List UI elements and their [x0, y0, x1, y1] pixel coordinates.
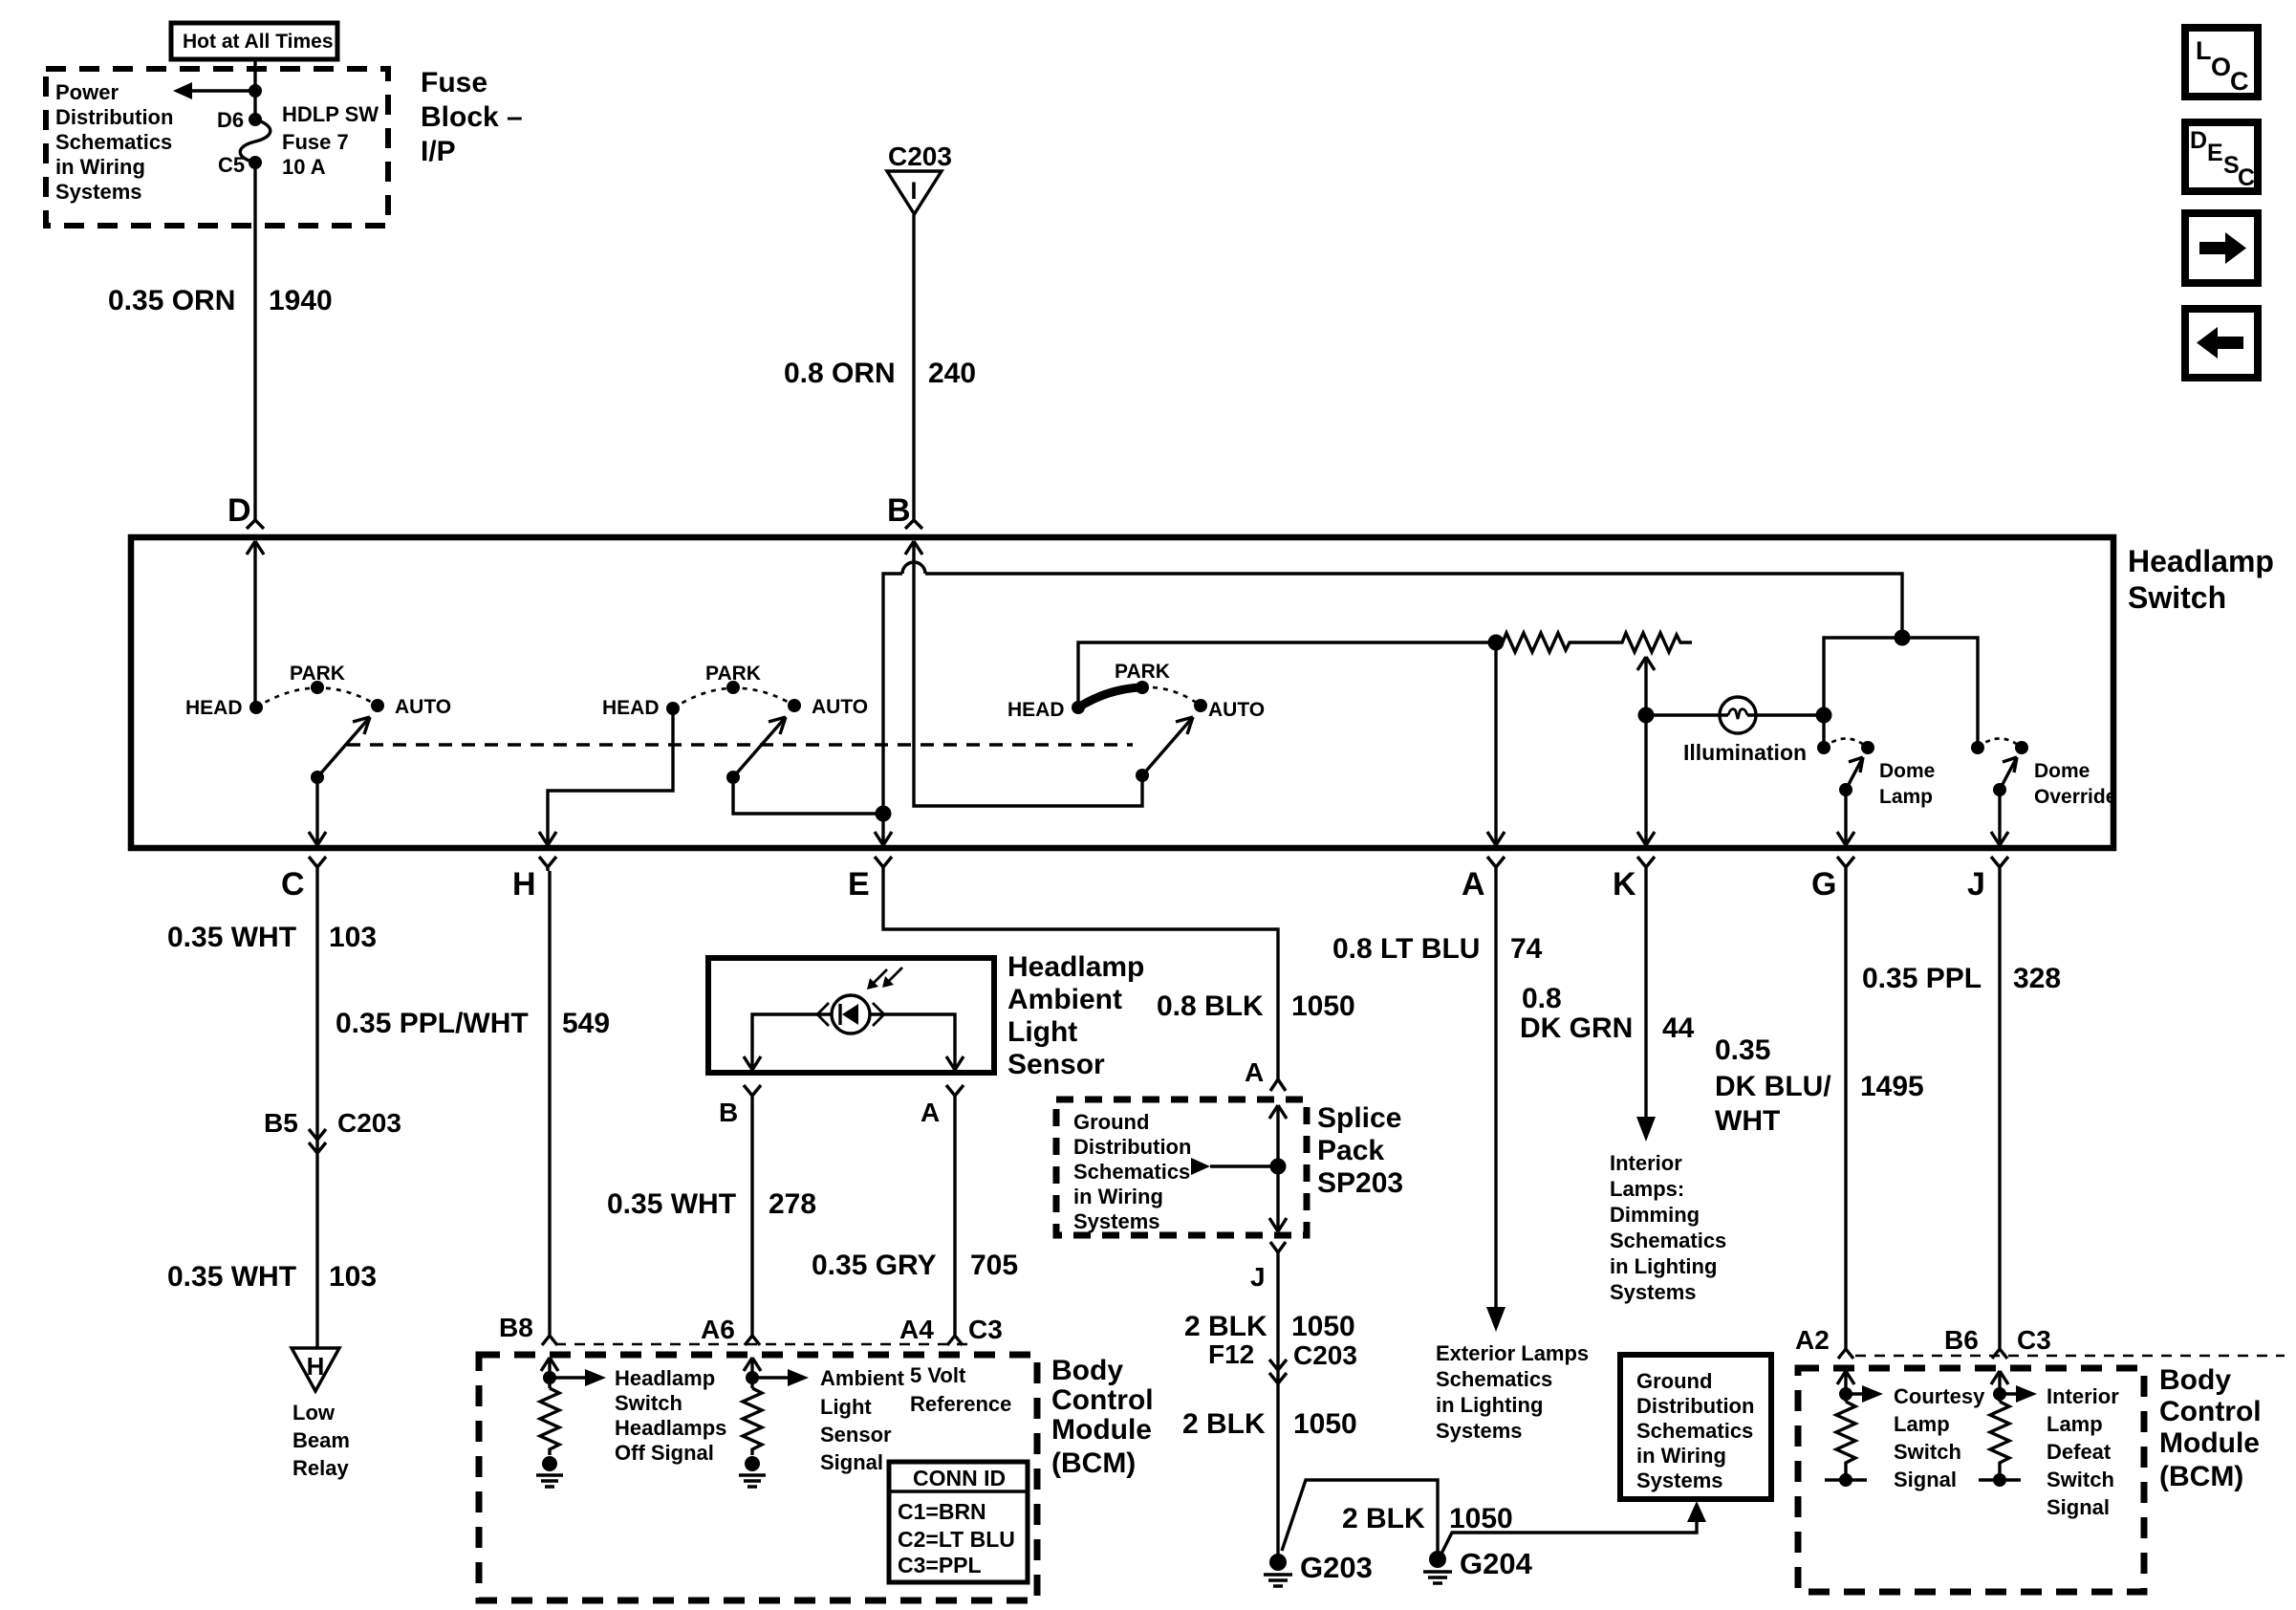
svg-text:C203: C203	[888, 141, 952, 171]
wire label 0.35 WHT 103	[167, 922, 377, 953]
junction node at fuse feed	[249, 84, 262, 98]
svg-text:Lamp: Lamp	[1894, 1412, 1950, 1436]
svg-text:G: G	[1811, 866, 1836, 903]
wire dome feed rail branches	[1824, 638, 1978, 748]
wire from Hot at All Times to fuse	[253, 59, 256, 120]
connector triangle H Low Beam Relay	[292, 1348, 339, 1391]
wire S1 wiper to pin C	[309, 777, 326, 845]
wire splice pack internal	[1269, 1105, 1287, 1231]
BCM connector dashed line left	[555, 1343, 967, 1346]
svg-text:Systems: Systems	[55, 180, 142, 204]
svg-text:HEAD: HEAD	[602, 697, 660, 719]
switch S3 selected segment HEAD-PARK thick arc	[1078, 687, 1140, 707]
svg-text:Hot at All Times: Hot at All Times	[183, 31, 334, 53]
wire pin E to splice pack	[883, 871, 1278, 1079]
svg-text:DK BLU/: DK BLU/	[1715, 1071, 1831, 1102]
pin C5	[218, 153, 262, 177]
resistor dimmer rheostat	[1503, 633, 1692, 652]
svg-text:Fuse 7: Fuse 7	[282, 130, 349, 154]
junction node B6 signal	[1993, 1387, 2006, 1401]
svg-text:103: 103	[329, 1261, 377, 1293]
pin A4	[899, 1315, 963, 1345]
Splice Pack dashed box	[1056, 1099, 1307, 1235]
junction node rheostat feed	[1488, 635, 1505, 651]
svg-text:Distribution: Distribution	[1073, 1135, 1191, 1159]
label Interior Lamp Defeat Switch Signal	[2047, 1384, 2119, 1519]
svg-text:1050: 1050	[1293, 1408, 1357, 1440]
svg-text:Off Signal: Off Signal	[615, 1441, 714, 1465]
svg-text:240: 240	[928, 358, 976, 389]
node G	[1811, 857, 1854, 903]
Fuse Block - I/P dashed box	[46, 69, 388, 226]
svg-text:Schematics: Schematics	[1073, 1160, 1190, 1184]
svg-text:in Wiring: in Wiring	[1636, 1444, 1726, 1468]
switch S2 PARK contact	[705, 663, 761, 694]
svg-text:CONN ID: CONN ID	[913, 1466, 1006, 1490]
wire E node to dome feed rail	[875, 562, 1902, 845]
junction node illumination to dome lamp	[1816, 707, 1832, 724]
switch S3 AUTO contact	[1194, 699, 1265, 721]
switch dome override wiper	[1993, 757, 2017, 796]
ground G203	[1264, 1551, 1373, 1586]
svg-text:Light: Light	[1007, 1016, 1077, 1048]
button LOC	[2185, 28, 2258, 97]
svg-text:0.35 WHT: 0.35 WHT	[607, 1188, 736, 1220]
svg-text:C203: C203	[337, 1108, 401, 1138]
label Dome Override	[2034, 760, 2116, 808]
svg-text:Schematics: Schematics	[1436, 1367, 1552, 1391]
svg-text:J: J	[1967, 866, 1985, 903]
wire label 0.8 LT BLU 74	[1332, 933, 1543, 965]
wire label 0.35 DK BLU/WHT 1495	[1715, 1034, 1924, 1137]
wire illumination lamp to dome lamp switch	[1756, 713, 1824, 716]
svg-text:74: 74	[1510, 933, 1543, 965]
wire label 0.35 GRY 705	[812, 1250, 1018, 1281]
svg-text:Ground: Ground	[1636, 1369, 1712, 1393]
button arrow left	[2185, 309, 2258, 378]
svg-text:A: A	[1245, 1057, 1264, 1087]
svg-text:Headlamp: Headlamp	[2128, 544, 2274, 578]
label Splice Pack SP203	[1317, 1102, 1403, 1199]
junction node A6 signal	[746, 1371, 759, 1384]
svg-text:Module: Module	[1051, 1414, 1152, 1446]
svg-text:Relay: Relay	[292, 1456, 349, 1480]
wire label 0.35 PPL/WHT 549	[336, 1008, 610, 1039]
svg-text:Schematics: Schematics	[1610, 1229, 1726, 1252]
svg-text:328: 328	[2013, 963, 2061, 994]
wire to illumination lamp	[1646, 713, 1720, 716]
node H	[512, 857, 556, 903]
svg-text:AUTO: AUTO	[812, 696, 868, 718]
node A	[1462, 857, 1505, 903]
svg-text:SP203: SP203	[1317, 1167, 1403, 1199]
wire A6 into BCM	[744, 1358, 761, 1388]
wire label 2 BLK 1050 lower	[1182, 1408, 1357, 1440]
svg-text:Lamp: Lamp	[2047, 1412, 2103, 1436]
svg-text:J: J	[1250, 1262, 1266, 1292]
svg-text:Systems: Systems	[1073, 1209, 1160, 1233]
svg-text:AUTO: AUTO	[395, 696, 451, 718]
svg-text:Control: Control	[1051, 1384, 1154, 1416]
svg-text:0.35 PPL: 0.35 PPL	[1862, 963, 1982, 994]
connector fork at D	[247, 520, 264, 529]
termination bar B6	[1979, 1473, 2021, 1487]
wire pin J to BCM pin B6	[1998, 871, 2001, 1349]
wire S2 HEAD contact to pin H	[539, 708, 673, 845]
svg-text:C3: C3	[2017, 1325, 2051, 1355]
switch S1 travel arc	[256, 687, 378, 707]
svg-text:A6: A6	[701, 1315, 735, 1344]
value label HDLP SW Fuse 7 10 A	[282, 102, 379, 179]
svg-text:C2=LT BLU: C2=LT BLU	[898, 1527, 1015, 1552]
svg-text:F12: F12	[1208, 1339, 1254, 1369]
svg-text:Sensor: Sensor	[820, 1423, 892, 1447]
svg-text:HEAD: HEAD	[1007, 699, 1065, 721]
svg-text:I/P: I/P	[421, 136, 456, 167]
wiper arrow of rheostat	[1637, 657, 1655, 845]
pin D6	[217, 108, 262, 132]
wire label 0.35 PPL 328	[1862, 963, 2061, 994]
svg-text:Schematics: Schematics	[1636, 1419, 1753, 1443]
svg-text:C5: C5	[218, 153, 245, 177]
note Exterior Lamps Schematics in Lighting Systems	[1436, 1341, 1589, 1443]
svg-text:Beam: Beam	[292, 1428, 350, 1452]
svg-text:C203: C203	[1293, 1340, 1357, 1370]
svg-text:1050: 1050	[1449, 1503, 1513, 1534]
mechanical link dashed line	[347, 743, 1133, 746]
svg-text:0.8: 0.8	[1522, 983, 1562, 1014]
wire B8 into BCM	[541, 1358, 558, 1388]
svg-text:0.35 GRY: 0.35 GRY	[812, 1250, 937, 1281]
svg-text:E: E	[848, 866, 870, 903]
connector fork at B	[905, 520, 922, 529]
svg-text:C: C	[281, 866, 305, 903]
wire label 0.35 WHT 103 lower	[167, 1261, 377, 1293]
svg-text:0.35: 0.35	[1715, 1034, 1770, 1066]
wire label 0.8 DK GRN 44	[1520, 983, 1695, 1044]
arrow A2 signal tap	[1846, 1385, 1883, 1403]
switch S2 AUTO contact	[788, 696, 868, 718]
svg-text:44: 44	[1662, 1012, 1695, 1044]
label Body Control Module BCM left	[1051, 1355, 1154, 1479]
switch S2 HEAD contact	[602, 697, 680, 719]
svg-text:1050: 1050	[1291, 1311, 1355, 1342]
ground B8 internal	[536, 1456, 563, 1487]
note Interior Lamps Dimming Schematics in Lighting Systems	[1610, 1151, 1726, 1304]
svg-text:D: D	[2190, 127, 2207, 154]
note Power Distribution Schematics in Wiring Systems	[55, 80, 173, 204]
wire B6 into BCM	[1991, 1371, 2008, 1402]
wire label 0.8 BLK 1050	[1157, 990, 1355, 1022]
svg-text:Distribution: Distribution	[1636, 1394, 1754, 1418]
svg-text:10 A: 10 A	[282, 155, 326, 179]
svg-text:Power: Power	[55, 80, 119, 104]
junction node B8 signal	[543, 1371, 556, 1384]
lamp Illumination	[1683, 697, 1807, 765]
button DESC	[2185, 122, 2258, 191]
wire label 2 BLK 1050	[1184, 1311, 1355, 1342]
svg-text:Ambient: Ambient	[820, 1366, 905, 1390]
svg-text:in Lighting: in Lighting	[1610, 1254, 1717, 1278]
svg-text:Systems: Systems	[1436, 1419, 1523, 1443]
svg-text:0.8 BLK: 0.8 BLK	[1157, 990, 1264, 1022]
switch dome lamp wiper	[1839, 757, 1863, 796]
node E	[848, 857, 892, 903]
Body Control Module dashed box left	[479, 1355, 1037, 1600]
svg-text:in Wiring: in Wiring	[55, 155, 145, 179]
svg-text:1495: 1495	[1860, 1071, 1924, 1102]
switch S1 AUTO contact	[371, 696, 451, 718]
svg-text:Systems: Systems	[1636, 1469, 1723, 1492]
in-line connector B5 C203	[264, 1108, 401, 1153]
svg-text:1940: 1940	[269, 285, 333, 316]
pin B8	[499, 1313, 557, 1345]
label Body Control Module BCM right	[2159, 1364, 2262, 1492]
wire pin H to BCM pin B8	[548, 871, 551, 1336]
svg-text:PARK: PARK	[1115, 661, 1170, 683]
svg-text:D6: D6	[217, 108, 244, 132]
svg-text:0.35 ORN: 0.35 ORN	[108, 285, 235, 316]
svg-text:G204: G204	[1460, 1547, 1533, 1580]
switch S1 HEAD contact	[185, 697, 263, 719]
svg-text:5 Volt: 5 Volt	[910, 1363, 966, 1387]
svg-text:Splice: Splice	[1317, 1102, 1401, 1134]
svg-text:C: C	[2230, 67, 2249, 96]
svg-text:A2: A2	[1795, 1325, 1830, 1355]
wire pin D to HEAD contact switch 1	[247, 541, 264, 707]
svg-text:B: B	[887, 492, 911, 529]
resistor A2 load	[1836, 1402, 1855, 1476]
svg-text:C3: C3	[968, 1315, 1003, 1344]
pin B6	[1944, 1325, 2007, 1359]
svg-text:Body: Body	[1051, 1355, 1123, 1386]
svg-text:278: 278	[769, 1188, 816, 1220]
switch S3 wiper arm	[1136, 717, 1193, 782]
svg-text:Fuse: Fuse	[421, 67, 487, 98]
pin A2	[1795, 1325, 1853, 1359]
switch dome lamp contacts	[1817, 739, 1874, 755]
svg-text:AUTO: AUTO	[1208, 699, 1265, 721]
fuse HDLP SW Fuse 7 10 A	[240, 120, 271, 163]
button arrow right	[2185, 213, 2258, 283]
wire S3 HEAD contact to dimmer rheostat	[1078, 642, 1496, 707]
svg-text:Signal: Signal	[1894, 1468, 1957, 1491]
in-line connector F12 C203	[1208, 1339, 1357, 1383]
svg-text:1050: 1050	[1291, 990, 1355, 1022]
svg-text:2 BLK: 2 BLK	[1342, 1503, 1425, 1534]
svg-text:Systems: Systems	[1610, 1280, 1697, 1304]
switch S1 PARK contact	[290, 663, 345, 694]
BCM connector dashed line right	[1855, 1355, 2285, 1358]
svg-text:A: A	[921, 1098, 940, 1127]
svg-text:Module: Module	[2159, 1427, 2260, 1459]
svg-text:in Lighting: in Lighting	[1436, 1393, 1543, 1417]
svg-text:103: 103	[329, 922, 377, 953]
svg-text:I: I	[911, 178, 918, 205]
wire sensor internal left to pin B	[744, 1014, 832, 1070]
wire sensor B to BCM pin A6	[750, 1096, 753, 1336]
svg-text:2 BLK: 2 BLK	[1182, 1408, 1266, 1440]
svg-text:Low: Low	[292, 1401, 336, 1425]
junction node SP203	[1270, 1159, 1287, 1175]
junction node dome rail	[1895, 630, 1911, 646]
wire S2 wiper to E node	[733, 777, 883, 814]
wire label 2 BLK 1050 ground strap	[1342, 1503, 1513, 1534]
termination bar A2	[1825, 1473, 1867, 1487]
svg-text:Distribution: Distribution	[55, 105, 173, 129]
pin B of sensor	[719, 1085, 761, 1127]
svg-text:Switch: Switch	[1894, 1440, 1961, 1464]
svg-text:A4: A4	[899, 1315, 934, 1344]
wire sensor internal right to pin A	[870, 1014, 964, 1070]
svg-text:Illumination: Illumination	[1683, 740, 1807, 765]
pin A6	[701, 1315, 760, 1345]
svg-text:0.35 WHT: 0.35 WHT	[167, 1261, 296, 1293]
resistor B6 load	[1990, 1402, 2009, 1476]
arrow G204 to ground distribution note	[1441, 1501, 1706, 1554]
svg-text:Headlamp: Headlamp	[615, 1366, 715, 1390]
switch S1 wiper arm	[311, 717, 370, 784]
label Headlamp Switch	[2128, 544, 2274, 615]
resistor A6 pulldown	[743, 1388, 762, 1455]
svg-text:Headlamp: Headlamp	[1007, 951, 1144, 983]
switch S3 PARK contact	[1115, 661, 1170, 694]
switch S2 wiper arm	[726, 717, 786, 784]
svg-text:Override: Override	[2034, 786, 2116, 808]
photodiode ambient light sensor	[817, 968, 902, 1033]
svg-text:Headlamps: Headlamps	[615, 1416, 726, 1440]
arrow A6 signal tap	[752, 1369, 809, 1386]
resistor B8 pulldown	[540, 1388, 559, 1455]
svg-text:Switch: Switch	[615, 1391, 682, 1415]
wire fuse C5 to headlamp switch pin D	[253, 163, 256, 521]
svg-text:Signal: Signal	[820, 1450, 883, 1474]
label Headlamp Switch Headlamps Off Signal	[615, 1366, 726, 1465]
svg-text:(BCM): (BCM)	[1051, 1447, 1136, 1479]
svg-text:Exterior Lamps: Exterior Lamps	[1436, 1341, 1589, 1365]
node K	[1613, 857, 1655, 903]
svg-text:C3=PPL: C3=PPL	[898, 1553, 982, 1577]
CONN ID table	[889, 1462, 1028, 1582]
svg-text:Switch: Switch	[2047, 1468, 2114, 1491]
junction node A2 signal	[1839, 1387, 1852, 1401]
svg-text:K: K	[1613, 866, 1636, 903]
arrow B8 signal tap	[550, 1369, 606, 1386]
svg-text:Dome: Dome	[2034, 760, 2090, 782]
label Courtesy Lamp Switch Signal	[1894, 1384, 1985, 1491]
svg-text:Courtesy: Courtesy	[1894, 1384, 1985, 1408]
label 5 Volt Reference	[910, 1363, 1011, 1416]
svg-text:B5: B5	[264, 1108, 298, 1138]
svg-text:Light: Light	[820, 1395, 872, 1419]
svg-text:WHT: WHT	[1715, 1105, 1780, 1137]
switch S2 travel arc	[673, 688, 794, 708]
Body Control Module dashed box right	[1798, 1368, 2144, 1592]
wire dome lamp wiper to pin G	[1837, 790, 1854, 845]
svg-text:Block –: Block –	[421, 101, 523, 133]
arrow to power distribution	[173, 82, 255, 99]
node J	[1967, 857, 2008, 903]
svg-text:C: C	[2238, 164, 2255, 191]
wire label 0.35 WHT 278	[607, 1188, 816, 1220]
wire sensor A to BCM pin A4	[953, 1096, 956, 1336]
wire A2 into BCM	[1837, 1371, 1854, 1402]
svg-text:(BCM): (BCM)	[2159, 1461, 2243, 1492]
svg-text:D: D	[227, 492, 251, 529]
switch S3 travel arc PARK-AUTO	[1142, 687, 1201, 706]
wire C203 to headlamp switch pin B	[912, 214, 915, 521]
svg-text:Dimming: Dimming	[1610, 1203, 1700, 1227]
svg-text:Pack: Pack	[1317, 1135, 1384, 1166]
svg-text:0.8 LT BLU: 0.8 LT BLU	[1332, 933, 1480, 965]
pin A of splice pack	[1245, 1057, 1286, 1091]
ground G204	[1423, 1547, 1533, 1583]
svg-text:Interior: Interior	[1610, 1151, 1682, 1175]
svg-text:Dome: Dome	[1879, 760, 1935, 782]
svg-text:HDLP SW: HDLP SW	[282, 102, 379, 126]
arrow B6 signal tap	[2000, 1385, 2037, 1403]
svg-text:Lamps:: Lamps:	[1610, 1177, 1684, 1201]
svg-text:A: A	[1462, 866, 1485, 903]
wire rheostat to pin A	[1487, 642, 1505, 845]
wire label 0.8 ORN 240	[784, 358, 976, 389]
switch dome override contacts	[1971, 739, 2028, 755]
svg-text:H: H	[512, 866, 536, 903]
label Dome Lamp	[1879, 760, 1935, 808]
svg-text:Defeat: Defeat	[2047, 1440, 2112, 1464]
wire pin K to interior lamps dimming	[1636, 871, 1656, 1142]
junction node illumination feed	[1638, 707, 1655, 724]
Headlamp Ambient Light Sensor box	[708, 958, 994, 1073]
svg-text:Signal: Signal	[2047, 1495, 2110, 1519]
label Low Beam Relay	[292, 1401, 350, 1480]
wire pin C to connector C203	[315, 871, 318, 1348]
label Fuse Block - I/P	[421, 67, 523, 167]
svg-text:E: E	[2207, 140, 2223, 166]
Headlamp Switch box	[131, 537, 2113, 848]
note box Ground Distribution Schematics in Wiring Systems	[1620, 1355, 1771, 1499]
node C	[281, 857, 326, 903]
svg-text:DK GRN: DK GRN	[1520, 1012, 1633, 1044]
svg-text:Interior: Interior	[2047, 1384, 2119, 1408]
wire G203 to G204	[1282, 1480, 1438, 1554]
svg-text:C1=BRN: C1=BRN	[898, 1499, 986, 1524]
svg-text:G203: G203	[1300, 1551, 1373, 1584]
svg-text:Ambient: Ambient	[1007, 984, 1122, 1015]
pin A of sensor	[921, 1085, 964, 1127]
arrow splice reference	[1191, 1158, 1278, 1175]
connector C203 triangle to instrument panel	[887, 141, 952, 214]
svg-text:Body: Body	[2159, 1364, 2231, 1396]
ground A6 internal	[739, 1456, 766, 1487]
svg-text:0.8 ORN: 0.8 ORN	[784, 358, 896, 389]
svg-text:O: O	[2211, 53, 2231, 81]
wire pin G to BCM pin A2	[1844, 871, 1847, 1349]
note Ground Distribution Schematics in Wiring Systems	[1073, 1110, 1191, 1233]
svg-text:0.35 WHT: 0.35 WHT	[167, 922, 296, 953]
label Ambient Light Sensor Signal	[820, 1366, 905, 1474]
svg-text:H: H	[307, 1352, 325, 1381]
wire pin A to exterior lamps	[1486, 871, 1505, 1332]
label Hot at All Times	[171, 23, 337, 59]
label Headlamp Ambient Light Sensor	[1007, 951, 1144, 1080]
wire pin B to switch 3 wiper	[905, 541, 1142, 806]
svg-text:HEAD: HEAD	[185, 697, 243, 719]
switch S3 HEAD contact	[1007, 699, 1085, 721]
svg-text:Sensor: Sensor	[1007, 1049, 1105, 1080]
pin J of splice pack	[1250, 1242, 1286, 1292]
svg-text:705: 705	[970, 1250, 1018, 1281]
